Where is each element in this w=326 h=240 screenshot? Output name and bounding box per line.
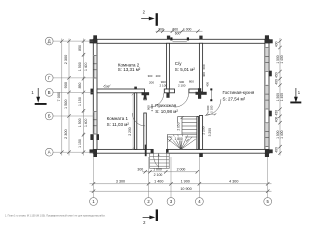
svg-text:300: 300 [148,74,153,78]
svg-text:850: 850 [78,83,82,89]
svg-text:Прихожая: Прихожая [155,103,176,108]
svg-text:2 300: 2 300 [64,129,68,139]
porch steps [150,153,170,168]
svg-text:1 400: 1 400 [84,62,88,71]
entry door leaf [158,153,160,167]
svg-text:450: 450 [275,72,279,78]
svg-text:1 150: 1 150 [78,97,82,106]
middle bearing wall upper part [199,43,202,92]
svg-text:Гостиная-кухня: Гостиная-кухня [223,90,255,95]
door living room arc [205,99,221,115]
svg-text:2 100: 2 100 [154,173,163,177]
svg-text:1 500: 1 500 [78,118,82,127]
svg-text:S: 10,98 м²: S: 10,98 м² [155,109,178,114]
svg-text:Б: Б [48,114,51,119]
log cross left wall lower [90,134,93,140]
axis А leader and circle [53,151,93,153]
svg-text:800: 800 [189,80,194,84]
svg-text:1 500: 1 500 [64,99,68,109]
svg-text:10 900: 10 900 [180,187,191,191]
svg-text:1 000: 1 000 [183,27,192,31]
window right wall lower [265,122,269,123]
svg-text:2 100: 2 100 [160,83,168,87]
porch opening left wall stub [145,145,147,157]
axis 4 leader and circle [198,157,200,198]
svg-text:850: 850 [78,45,82,51]
svg-text:2 000: 2 000 [177,167,186,171]
section mark 1 right [295,88,297,99]
svg-text:2 050: 2 050 [177,122,181,130]
stair right wall [197,117,199,150]
living door small line [206,113,216,115]
log cross right wall upper [269,71,272,77]
bathroom wall bottom cross [166,93,169,98]
svg-text:Д: Д [48,39,51,44]
svg-text:А: А [48,150,51,155]
svg-text:S: 13,31 м²: S: 13,31 м² [118,67,141,72]
hall stub cross [144,93,147,99]
dimension line window placement left [83,39,85,156]
dimension row axis spacings bottom [90,183,272,185]
svg-text:200: 200 [156,74,161,78]
axis В leader and circle [53,91,93,93]
svg-text:1 400: 1 400 [280,55,284,63]
svg-text:3 300: 3 300 [116,179,125,183]
exterior left wall [93,39,97,153]
svg-text:1 900: 1 900 [181,179,190,183]
svg-text:1 400: 1 400 [280,93,284,101]
staircase straight flight treads [178,116,197,118]
exterior bottom wall right segment [167,149,270,153]
dimension row overall bottom [90,190,272,192]
log cross top wall at middle wall [199,36,202,40]
corner cross top-left [93,35,97,43]
svg-text:2 300: 2 300 [64,55,68,65]
svg-text:1 000: 1 000 [153,167,162,171]
section mark 1 left [37,88,39,99]
axis 5 leader and circle [267,157,269,198]
svg-text:1 400: 1 400 [154,179,163,183]
corner cross bottom-right [265,149,269,157]
room1 wall top stub [134,87,137,90]
bathroom left wall [167,43,170,89]
log cross top wall at bathroom wall [167,36,170,40]
section mark 2 bottom [143,216,153,218]
window right wall middle [265,85,269,86]
axis Д leader and circle [53,40,93,42]
middle bearing wall lower part [199,116,202,150]
svg-text:600: 600 [175,32,181,36]
label 1800 stair [172,136,185,140]
svg-text:S: 5,01 м²: S: 5,01 м² [175,67,196,72]
room1 right wall [135,93,137,150]
axis 1 leader and circle [93,157,95,198]
svg-text:2 100: 2 100 [209,105,213,113]
svg-text:3 200: 3 200 [208,128,212,136]
interior wall room2 bottom segment A [97,89,145,93]
vestibule wall lower [144,113,147,149]
svg-text:Комната 1: Комната 1 [107,116,129,121]
dimension chain right wall windows [279,38,281,156]
svg-text:1 150: 1 150 [78,139,82,148]
svg-text:1. План 1-го этажа. М 1:100 (М: 1. План 1-го этажа. М 1:100 (М 1:50). Пр… [5,215,106,218]
log cross right wall lower [269,111,272,117]
svg-text:1 400: 1 400 [84,118,88,127]
axis Г leader and circle [53,77,93,79]
log cross bottom wall at middle wall [199,153,203,157]
svg-text:1 800: 1 800 [174,137,182,141]
corner cross top-right [265,35,269,43]
svg-text:2 200: 2 200 [201,126,205,134]
svg-text:2 200: 2 200 [128,127,132,135]
svg-text:S: 27,54 м²: S: 27,54 м² [223,96,246,101]
door bathroom arc [175,93,189,107]
window left wall room1 [93,111,97,112]
svg-text:2 100: 2 100 [178,83,186,87]
axis Б leader and circle [53,115,93,117]
axis 3 leader and circle [170,157,172,198]
svg-text:900: 900 [64,82,68,88]
interior wall room2 bottom segment C [169,89,174,93]
section mark 2 top [141,18,152,20]
porch opening right wall stub [166,149,168,152]
dimension line 7000 overall left [61,39,63,156]
svg-text:1 500: 1 500 [78,62,82,71]
corner cross bottom-left [93,149,97,157]
svg-text:400: 400 [202,72,206,77]
svg-text:400: 400 [275,41,279,47]
dimension chain top wall [156,30,203,32]
room1 interior dim 2200 [132,93,134,149]
svg-text:1 400: 1 400 [280,130,284,138]
interior wall room2 bottom segment B [164,89,169,93]
svg-text:300: 300 [137,167,143,171]
window left wall room2 [93,55,97,56]
svg-text:400: 400 [275,147,279,153]
staircase winder fan [167,134,197,136]
entry door arc [154,153,159,167]
dimension row entry door bottom [142,171,198,173]
svg-text:200: 200 [149,81,154,85]
window right wall upper [265,47,269,48]
svg-text:400: 400 [205,82,209,87]
exterior top wall [93,39,269,43]
svg-text:В: В [48,90,51,95]
middle wall cross stub right [198,88,201,99]
living door dim line [210,89,212,101]
svg-text:400: 400 [275,79,279,85]
log cross left wall at interior wall [91,89,94,95]
svg-text:600: 600 [202,64,206,69]
vestibule wall upper [144,98,147,100]
dimension line axis spacings left [68,39,70,156]
door vestibule arc [132,113,145,126]
exterior right wall [265,39,269,153]
svg-text:С/у: С/у [175,61,183,66]
svg-text:4 300: 4 300 [229,179,238,183]
window top wall bathroom [170,37,172,40]
exterior bottom wall left segment [93,149,153,153]
svg-text:400: 400 [275,117,279,123]
svg-text:300: 300 [158,27,164,31]
svg-text:2 100: 2 100 [150,104,154,112]
svg-text:S: 11,03 м²: S: 11,03 м² [107,122,130,127]
door room2 arc [150,93,164,107]
axis 2 leader and circle [148,157,150,198]
svg-text:450: 450 [275,110,279,116]
svg-text:7 000: 7 000 [57,92,61,102]
